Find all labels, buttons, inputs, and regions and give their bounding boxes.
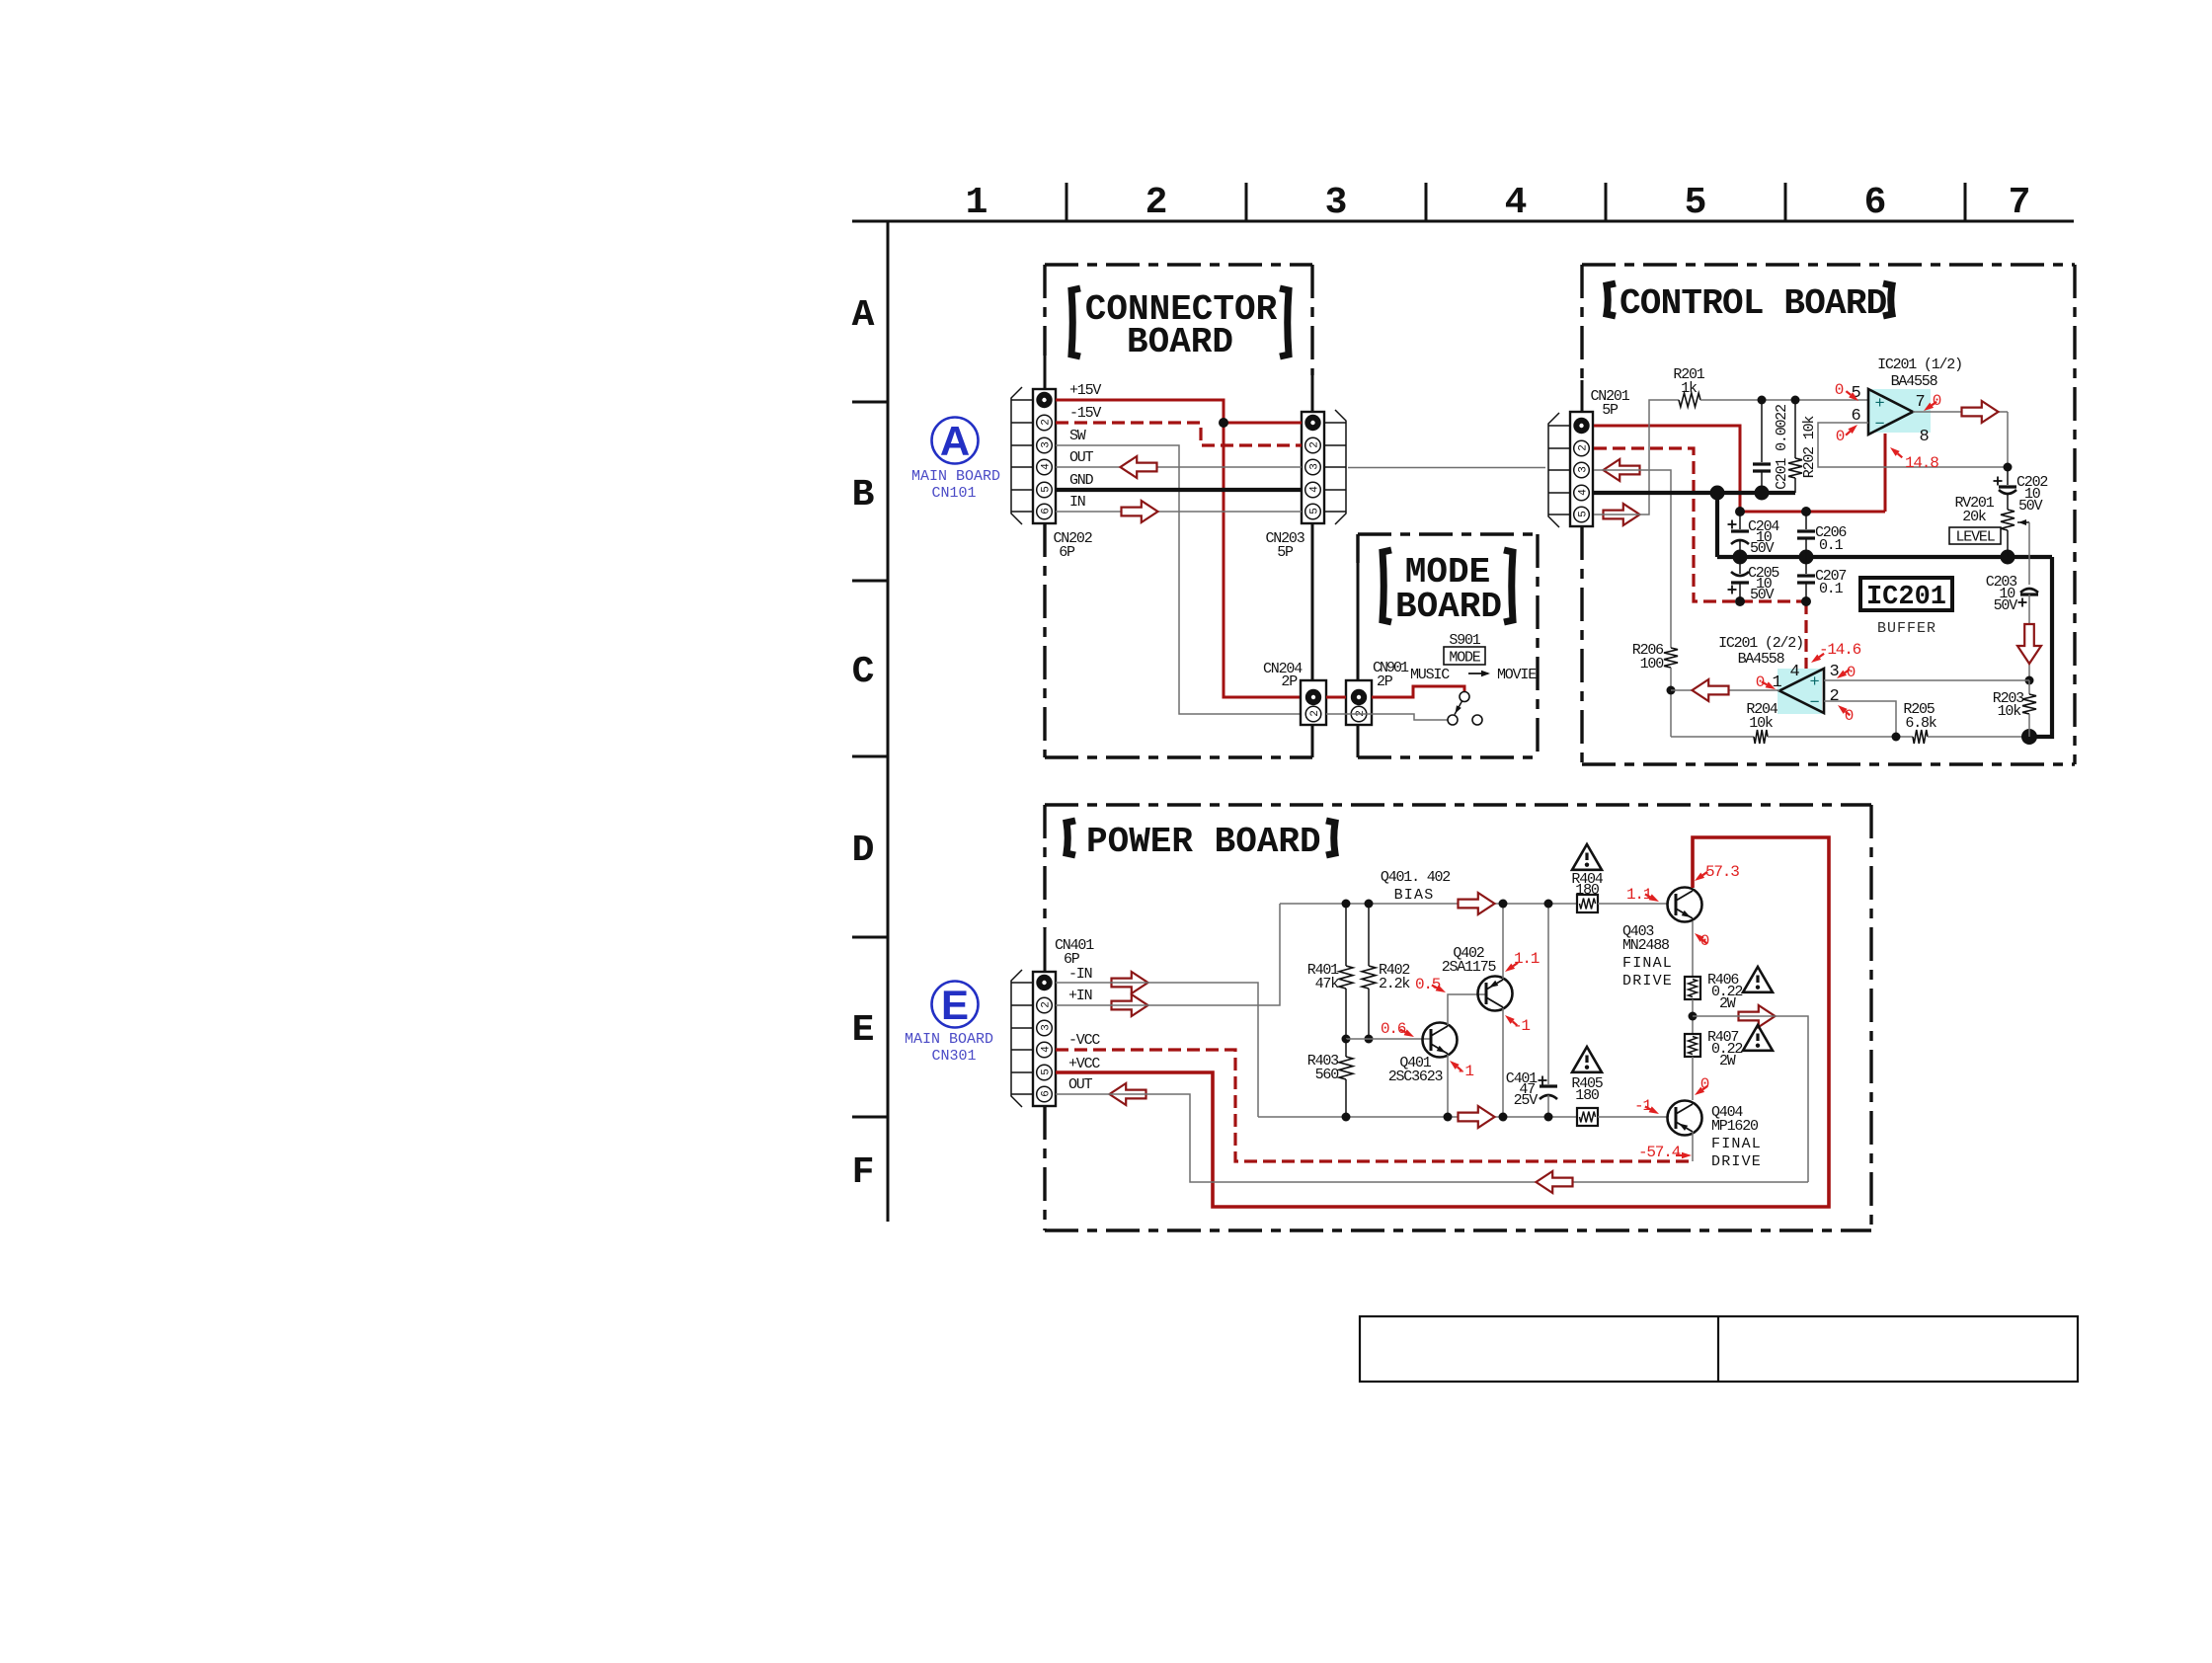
node Q402 emitter: [1499, 900, 1508, 909]
svg-text:BUFFER: BUFFER: [1877, 620, 1936, 637]
svg-text:-1: -1: [1457, 1063, 1473, 1080]
svg-text:-1: -1: [1634, 1097, 1651, 1115]
svg-text:BOARD: BOARD: [1127, 322, 1233, 362]
power board outline: [1045, 803, 1871, 806]
label LEVEL boxed: [1949, 527, 2001, 544]
svg-text:4: 4: [1505, 182, 1528, 224]
wire R406 to output node: [1692, 999, 1694, 1034]
svg-text:5: 5: [1578, 512, 1590, 517]
wire red CN204-CN901-switch: [1326, 696, 1346, 699]
svg-text:2: 2: [1145, 182, 1168, 224]
node R403 bottom: [1342, 1113, 1351, 1122]
resistor R201: [1679, 393, 1700, 407]
svg-text:2P: 2P: [1281, 673, 1298, 690]
svg-text:GND: GND: [1069, 472, 1094, 489]
wire +15V red: [1056, 400, 1224, 423]
node op-amp2 output junction: [1667, 686, 1676, 695]
wire R407 to Q404 collector: [1692, 1057, 1694, 1100]
svg-text:BOARD: BOARD: [1395, 587, 1502, 627]
svg-text:CN101: CN101: [931, 485, 976, 502]
wire red +15V CN201 pin1 to rail: [1594, 426, 1740, 512]
wire red to op-amp pin8: [1884, 434, 1887, 512]
svg-text:3: 3: [1578, 467, 1590, 473]
connector CN203: [1302, 412, 1324, 523]
svg-text:0.6: 0.6: [1381, 1020, 1406, 1038]
node C203 R203 junction: [2025, 676, 2034, 685]
warning triangle R407: [1743, 1025, 1773, 1051]
svg-text:57.3: 57.3: [1705, 863, 1739, 881]
svg-text:CN301: CN301: [931, 1048, 976, 1065]
svg-text:-VCC: -VCC: [1068, 1032, 1100, 1049]
node GND RV201 junction: [2001, 550, 2015, 565]
wire output to OUT line: [1693, 1016, 1808, 1182]
svg-text:7: 7: [2009, 182, 2031, 224]
svg-text:A: A: [852, 294, 875, 337]
resistor R406 boxed: [1685, 977, 1700, 999]
wire Q402 collector to lower rail: [1502, 1008, 1504, 1117]
resistor R203: [2028, 680, 2030, 694]
resistor R205: [1913, 730, 1928, 744]
wire lower rail: [1258, 1116, 1577, 1118]
node R202 top: [1791, 396, 1800, 405]
wire dashed -15V CN201 pin2: [1594, 448, 1740, 601]
svg-text:+IN: +IN: [1068, 988, 1092, 1004]
wire dashed -VCC from CN401 pin4: [1056, 1050, 1693, 1161]
node GND corner junction: [1710, 486, 1725, 501]
svg-text:4: 4: [1789, 663, 1799, 681]
capacitor C204: [1739, 512, 1741, 529]
wire OUT return: [1056, 1094, 1808, 1182]
svg-text:CONTROL BOARD: CONTROL BOARD: [1619, 283, 1887, 324]
svg-text:6: 6: [1864, 182, 1887, 224]
arrow OUT line left: [1537, 1171, 1573, 1193]
warning triangle R404: [1572, 844, 1602, 870]
svg-text:BIAS: BIAS: [1394, 887, 1435, 904]
node C206 top junction: [1801, 507, 1811, 516]
svg-text:3: 3: [1041, 442, 1053, 448]
capacitor C201: [1761, 400, 1763, 462]
wire R404 to Q403 base: [1598, 903, 1668, 905]
wire CN203 pin3 to CN201 pin3 cable: [1348, 467, 1545, 469]
node GND C201 junction: [1755, 486, 1770, 501]
resistor R204: [1754, 730, 1768, 744]
capacitor C202: [2007, 467, 2009, 485]
node bottom right junction: [2021, 729, 2037, 745]
node C205 bottom junction: [1735, 596, 1745, 606]
wire +IN to bias rail: [1056, 904, 1280, 1005]
wire Q404 emitter down: [1692, 1132, 1694, 1161]
connector CN201: [1570, 412, 1593, 526]
connector board outline: [1045, 263, 1312, 266]
svg-text:BA4558: BA4558: [1891, 373, 1938, 390]
node C207 bottom junction: [1801, 596, 1811, 606]
connector board title: [1071, 288, 1080, 356]
wire dashed -15V to op-amp2 pin4: [1804, 601, 1807, 675]
resistor R202: [1794, 400, 1796, 458]
label MODE boxed: [1444, 647, 1485, 665]
svg-text:5: 5: [1041, 487, 1053, 493]
capacitor C205: [1739, 557, 1741, 574]
node C401 bottom: [1544, 1113, 1553, 1122]
node R401 bottom: [1342, 1035, 1351, 1044]
svg-text:2SA1175: 2SA1175: [1442, 959, 1497, 976]
wire Q403 emitter to R406: [1692, 921, 1694, 977]
svg-text:2: 2: [1309, 442, 1321, 448]
arrow CN201 pin5 right: [1604, 504, 1640, 525]
svg-text:0: 0: [1835, 381, 1844, 399]
arrow +IN right: [1112, 994, 1148, 1016]
svg-text:2SC3623: 2SC3623: [1388, 1069, 1444, 1085]
svg-text:3: 3: [1829, 663, 1839, 681]
svg-text:50V: 50V: [2018, 498, 2043, 515]
svg-text:2P: 2P: [1377, 673, 1393, 690]
power board title: [1066, 821, 1075, 855]
resistor R206: [1664, 648, 1678, 668]
svg-text:5: 5: [1041, 1069, 1053, 1075]
wire GND thick CN201 pin4: [1594, 491, 1795, 495]
svg-text:1: 1: [1772, 673, 1781, 692]
wire GND thick mid rail: [1717, 555, 2052, 559]
svg-text:MOVIE: MOVIE: [1497, 667, 1537, 683]
svg-text:1: 1: [966, 182, 988, 224]
node Q401 emitter rail: [1444, 1113, 1453, 1122]
resistor R401: [1339, 966, 1353, 989]
wire CN201 pin5 to R201: [1594, 400, 1679, 515]
wire red +15V rail: [1740, 511, 1885, 514]
svg-text:-15V: -15V: [1069, 405, 1101, 422]
wire red +VCC from CN401 pin5: [1056, 837, 1829, 1207]
svg-text:2W: 2W: [1719, 995, 1736, 1012]
control board title: [1607, 283, 1616, 316]
wire op-amp2 output: [1671, 689, 1779, 691]
node C204 top junction: [1735, 507, 1745, 516]
svg-text:E: E: [941, 982, 969, 1028]
svg-text:100: 100: [1640, 656, 1665, 673]
wire dashed -15V rail: [1740, 599, 1806, 602]
capacitor C401: [1547, 904, 1549, 1084]
svg-text:FINAL: FINAL: [1711, 1136, 1762, 1152]
svg-text:47k: 47k: [1315, 976, 1340, 992]
svg-text:2: 2: [1041, 420, 1053, 426]
svg-text:MAIN BOARD: MAIN BOARD: [905, 1031, 993, 1048]
mode board title: [1382, 550, 1391, 622]
node output junction: [1689, 1012, 1698, 1021]
wire Q401 collector to Q402 base: [1448, 994, 1486, 1025]
svg-text:3: 3: [1041, 1025, 1053, 1031]
arrow IN right: [1122, 501, 1158, 522]
arrow OUT left: [1121, 456, 1157, 478]
svg-text:2W: 2W: [1719, 1053, 1736, 1069]
transistor Q404 MP1620: [1668, 1101, 1702, 1136]
node Q402 collector: [1499, 1113, 1508, 1122]
wire GND thick: [1056, 488, 1302, 492]
node GND C206 junction: [1799, 550, 1814, 565]
connector CN204: [1301, 680, 1326, 725]
svg-text:−: −: [1874, 416, 1884, 435]
arrow op-amp2 output left: [1693, 679, 1729, 701]
node junction +15V: [1219, 418, 1228, 428]
wire bias rail: [1280, 903, 1577, 905]
svg-text:−: −: [1809, 694, 1819, 713]
wire op-amp2 plus input: [1824, 679, 2029, 681]
svg-text:2: 2: [1578, 445, 1590, 451]
svg-text:7: 7: [1915, 393, 1924, 412]
svg-text:50V: 50V: [1994, 597, 2018, 614]
svg-text:DRIVE: DRIVE: [1711, 1153, 1762, 1170]
capacitor C207: [1805, 557, 1807, 574]
wire op-amp2 minus input: [1824, 701, 1896, 737]
wire CN201 pin3 to R206: [1594, 470, 1671, 648]
svg-text:2: 2: [1829, 687, 1838, 706]
svg-text:5P: 5P: [1602, 402, 1619, 419]
wire feedback bottom rail: [1671, 736, 1754, 738]
svg-text:-14.6: -14.6: [1819, 641, 1861, 659]
grid row ticks: [852, 401, 888, 404]
node A main board CN101 reference: [932, 418, 979, 464]
mode board outline: [1358, 532, 1538, 535]
connector CN401: [1033, 972, 1056, 1106]
node GND C204 junction: [1733, 550, 1748, 565]
warning triangle R406: [1743, 967, 1773, 992]
node R401 top: [1342, 900, 1351, 909]
node R205 junction: [1892, 733, 1901, 742]
svg-text:R202 10k: R202 10k: [1801, 416, 1818, 479]
wire op-amp1 minus input feedback: [1818, 423, 2008, 467]
arrow op-amp1 output right: [1962, 401, 1999, 423]
arrow -IN right: [1112, 972, 1148, 993]
label IC201 boxed: [1860, 578, 1952, 610]
svg-text:POWER BOARD: POWER BOARD: [1086, 822, 1321, 862]
svg-text:IC201 (1/2): IC201 (1/2): [1877, 356, 1962, 373]
svg-text:+: +: [1874, 395, 1884, 414]
svg-text:0.1: 0.1: [1819, 581, 1844, 597]
grid ruler left line: [887, 221, 890, 1222]
svg-text:OUT: OUT: [1069, 449, 1094, 466]
svg-text:3: 3: [1309, 464, 1321, 470]
svg-text:6.8k: 6.8k: [1905, 715, 1936, 732]
svg-text:5: 5: [1309, 509, 1321, 515]
svg-text:B: B: [852, 474, 875, 516]
warning triangle R405: [1572, 1047, 1602, 1072]
svg-text:0.1: 0.1: [1819, 537, 1844, 554]
svg-text:C: C: [852, 651, 875, 693]
svg-text:2: 2: [1041, 1002, 1053, 1008]
transistor Q403 MN2488: [1668, 888, 1702, 922]
svg-text:A: A: [940, 418, 970, 464]
node R402 bottom: [1365, 1035, 1374, 1044]
svg-text:C201 0.0022: C201 0.0022: [1774, 405, 1790, 490]
connector CN202: [1033, 389, 1056, 523]
wire IN: [1056, 511, 1302, 513]
arrow bias rail right: [1459, 893, 1495, 914]
arrow OUT left: [1110, 1083, 1146, 1105]
wire switch pole return: [1326, 714, 1448, 720]
arrow signal down: [2017, 624, 2041, 664]
arrow output right: [1739, 1005, 1776, 1027]
svg-text:MUSIC: MUSIC: [1410, 667, 1450, 683]
svg-text:IC201 (2/2): IC201 (2/2): [1718, 635, 1803, 652]
resistor R407 boxed: [1685, 1034, 1700, 1057]
transistor Q402 2SA1175: [1478, 977, 1513, 1011]
svg-text:+: +: [1809, 673, 1819, 692]
wire RV201 wiper down: [2028, 522, 2030, 585]
svg-text:F: F: [852, 1151, 875, 1194]
wire CN203 to CN204 board-edge link: [1311, 523, 1314, 680]
wire R206 to output node: [1670, 668, 1672, 737]
wire -15V dashed red: [1056, 423, 1302, 445]
node C201 top: [1758, 396, 1767, 405]
capacitor C203: [2020, 589, 2038, 593]
svg-text:MP1620: MP1620: [1711, 1118, 1759, 1135]
wire Q401 emitter to rail: [1447, 1055, 1449, 1117]
arrow lower rail right: [1459, 1106, 1495, 1128]
svg-text:SW: SW: [1069, 428, 1086, 444]
svg-text:50V: 50V: [1750, 587, 1775, 603]
resistor R403: [1339, 1057, 1353, 1079]
svg-text:FINAL: FINAL: [1622, 955, 1673, 972]
svg-text:-57.4: -57.4: [1638, 1144, 1681, 1161]
svg-text:8: 8: [1919, 428, 1929, 446]
svg-text:180: 180: [1575, 1087, 1600, 1104]
svg-text:-1: -1: [1513, 1017, 1530, 1035]
svg-text:1.1: 1.1: [1514, 950, 1540, 968]
svg-text:25V: 25V: [1514, 1092, 1539, 1109]
svg-text:1k: 1k: [1681, 380, 1698, 397]
node E main board CN301 reference: [932, 982, 979, 1028]
grid ruler top line: [852, 220, 2074, 223]
svg-text:-IN: -IN: [1068, 966, 1092, 983]
grid column ticks: [1066, 183, 1068, 221]
svg-text:D: D: [852, 830, 875, 872]
svg-text:3: 3: [1325, 182, 1348, 224]
wire -IN to lower rail: [1056, 983, 1258, 1117]
svg-text:OUT: OUT: [1068, 1076, 1093, 1093]
svg-text:0: 0: [1836, 428, 1845, 445]
node output feedback junction: [2004, 463, 2013, 472]
wire R201 to op-amp1 plus input: [1700, 399, 1868, 401]
svg-text:MODE: MODE: [1449, 650, 1480, 667]
connector CN901: [1346, 680, 1372, 725]
table frame: [1360, 1316, 2078, 1382]
resistor R402: [1362, 966, 1376, 989]
wire OUT: [1056, 466, 1302, 468]
transistor Q401 2SC3623: [1423, 1023, 1458, 1058]
svg-text:6: 6: [1041, 1091, 1053, 1097]
svg-text:IC201: IC201: [1866, 583, 1946, 612]
svg-text:2: 2: [1309, 711, 1321, 717]
control board outline: [1582, 263, 2075, 266]
svg-text:10k: 10k: [1749, 715, 1774, 732]
wire GND thick right drop: [2029, 557, 2052, 737]
arrow CN201 pin3 left: [1604, 459, 1640, 481]
svg-text:LEVEL: LEVEL: [1955, 529, 1995, 546]
svg-text:Q401. 402: Q401. 402: [1381, 869, 1450, 886]
svg-text:0: 0: [1847, 664, 1856, 681]
wire +15V vertical to CN204: [1224, 423, 1301, 697]
svg-text:6: 6: [1041, 509, 1053, 515]
svg-text:IN: IN: [1069, 494, 1085, 511]
svg-text:DRIVE: DRIVE: [1622, 973, 1673, 990]
svg-text:5: 5: [1685, 182, 1707, 224]
svg-text:0: 0: [1933, 392, 1941, 410]
svg-text:E: E: [852, 1009, 875, 1052]
wire output down to C202: [2007, 412, 2009, 467]
wire R405 to Q404 base: [1598, 1116, 1668, 1118]
wire GND thick down: [1715, 493, 1719, 557]
svg-text:560: 560: [1315, 1067, 1340, 1083]
node C401 top: [1544, 900, 1553, 909]
wire SW: [1056, 445, 1301, 714]
svg-text:6P: 6P: [1059, 544, 1075, 561]
svg-text:20k: 20k: [1962, 509, 1987, 525]
op-amp U2 IC201 2/2: [1777, 669, 1822, 714]
svg-text:MN2488: MN2488: [1622, 937, 1670, 954]
wire Q402 emitter to bias rail: [1502, 904, 1504, 979]
svg-text:+VCC: +VCC: [1068, 1056, 1100, 1072]
svg-text:180: 180: [1575, 882, 1600, 899]
svg-text:2.2k: 2.2k: [1379, 976, 1410, 992]
wire op-amp1 output: [1913, 411, 2008, 413]
svg-text:14.8: 14.8: [1905, 454, 1938, 472]
svg-text:10k: 10k: [1998, 703, 2022, 720]
switch S901: [1460, 692, 1469, 702]
svg-text:MAIN BOARD: MAIN BOARD: [911, 468, 1000, 485]
wire base line Q401: [1346, 1038, 1431, 1040]
capacitor C206: [1805, 512, 1807, 529]
svg-text:5P: 5P: [1277, 544, 1294, 561]
op-amp U1 IC201 1/2: [1867, 389, 1931, 433]
svg-text:+15V: +15V: [1069, 382, 1101, 399]
svg-text:50V: 50V: [1750, 540, 1775, 557]
node R402 top: [1365, 900, 1374, 909]
svg-text:BA4558: BA4558: [1738, 651, 1785, 668]
potentiometer RV201: [2001, 510, 2014, 530]
